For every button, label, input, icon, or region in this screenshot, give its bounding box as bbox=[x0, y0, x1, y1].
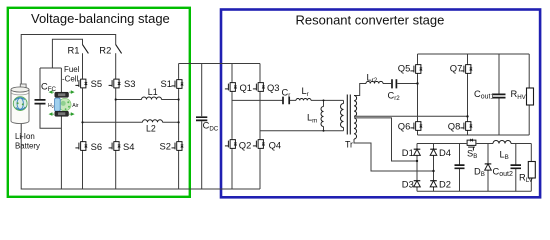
svg-text:L2: L2 bbox=[146, 123, 156, 133]
svg-text:Battery: Battery bbox=[15, 142, 40, 151]
svg-text:Cr2: Cr2 bbox=[388, 90, 401, 102]
svg-text:Voltage-balancing stage: Voltage-balancing stage bbox=[31, 11, 170, 26]
svg-text:S5: S5 bbox=[91, 78, 102, 89]
svg-text:RHV: RHV bbox=[511, 89, 527, 101]
svg-text:Q7: Q7 bbox=[450, 62, 463, 73]
svg-text:Q8: Q8 bbox=[448, 121, 461, 132]
svg-text:D4: D4 bbox=[439, 147, 451, 158]
svg-text:Q5: Q5 bbox=[398, 62, 411, 73]
svg-text:Tr: Tr bbox=[345, 140, 353, 150]
svg-text:Q6: Q6 bbox=[398, 121, 411, 132]
svg-text:DB: DB bbox=[474, 166, 485, 178]
svg-text:-Cell: -Cell bbox=[62, 75, 78, 84]
svg-text:Cout1: Cout1 bbox=[474, 89, 494, 101]
svg-text:Air: Air bbox=[72, 103, 79, 109]
svg-text:LB: LB bbox=[500, 149, 509, 161]
svg-text:Lr: Lr bbox=[302, 86, 309, 98]
svg-text:Cout2: Cout2 bbox=[493, 166, 513, 178]
svg-text:S1: S1 bbox=[161, 78, 172, 89]
svg-text:S3: S3 bbox=[124, 78, 135, 89]
svg-text:Lm: Lm bbox=[307, 113, 317, 125]
svg-text:Q2: Q2 bbox=[239, 139, 252, 150]
svg-text:CFC: CFC bbox=[41, 81, 56, 93]
svg-text:Fuel: Fuel bbox=[64, 65, 80, 74]
svg-text:D2: D2 bbox=[439, 178, 451, 189]
svg-text:SB: SB bbox=[467, 148, 477, 160]
svg-text:S2: S2 bbox=[160, 141, 171, 152]
svg-text:R2: R2 bbox=[99, 45, 111, 56]
svg-text:Lr2: Lr2 bbox=[367, 72, 378, 84]
svg-text:S4: S4 bbox=[123, 141, 134, 152]
svg-text:Resonant converter stage: Resonant converter stage bbox=[296, 12, 445, 27]
svg-text:CDC: CDC bbox=[203, 121, 219, 133]
svg-text:L1: L1 bbox=[148, 87, 158, 97]
svg-text:Q1: Q1 bbox=[240, 82, 253, 93]
svg-text:Q3: Q3 bbox=[267, 82, 280, 93]
svg-text:D1: D1 bbox=[402, 147, 414, 158]
svg-text:S6: S6 bbox=[91, 141, 102, 152]
svg-text:Q4: Q4 bbox=[269, 139, 282, 150]
svg-text:R1: R1 bbox=[68, 45, 80, 56]
svg-text:Li-Ion: Li-Ion bbox=[15, 132, 35, 141]
svg-text:D3: D3 bbox=[402, 178, 414, 189]
